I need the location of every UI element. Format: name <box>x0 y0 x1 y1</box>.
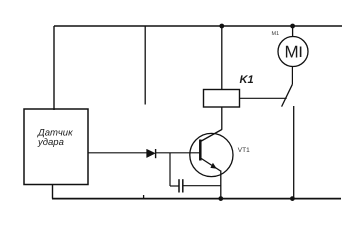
capacitor C1 <box>179 179 183 192</box>
svg-text:VT1: VT1 <box>238 147 250 154</box>
wire left vertical <box>53 26 55 110</box>
node junction bottom rail right <box>290 196 295 201</box>
wire capacitor branch horizontal <box>170 185 179 187</box>
wire capacitor to emitter line <box>184 185 221 187</box>
svg-text:M: M <box>285 43 299 62</box>
wire stub above bottom rail <box>143 195 145 199</box>
wire emitter to bottom rail <box>220 171 222 199</box>
shock sensor box <box>24 109 88 185</box>
wire sensor bottom lead <box>52 185 54 199</box>
wire collector to relay <box>221 107 223 130</box>
relay K1 coil <box>204 90 240 108</box>
wire capacitor branch vertical <box>169 153 171 186</box>
wire sensor output to diode <box>88 152 147 154</box>
node junction bottom rail left <box>218 196 223 201</box>
node junction top rail left <box>219 24 224 29</box>
wire relay feed from top rail <box>221 26 223 90</box>
wire motor feed from top rail <box>292 26 294 37</box>
svg-text:удара: удара <box>37 137 64 148</box>
motor M1 <box>278 37 308 67</box>
svg-text:K1: K1 <box>240 74 254 86</box>
wire motor to switch blade <box>291 67 293 85</box>
svg-text:M1: M1 <box>272 31 280 37</box>
wire diode to transistor base <box>156 152 201 154</box>
wire switch to bottom rail <box>293 106 295 199</box>
node junction top rail right <box>290 24 295 29</box>
transistor VT1 <box>190 130 233 177</box>
wire stub from top rail <box>144 26 146 105</box>
wire bottom rail <box>52 198 341 200</box>
switch K1.1 blade <box>282 84 293 106</box>
diode VD1 <box>147 149 156 158</box>
wire top rail <box>54 25 342 27</box>
wire relay to switch <box>240 97 287 99</box>
